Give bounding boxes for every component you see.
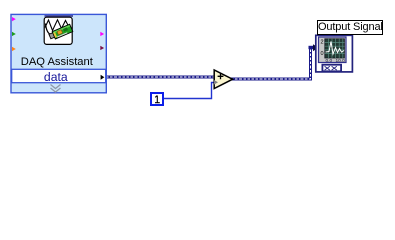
svg-text:10.0: 10.0 [336, 58, 346, 64]
svg-text:DAQ Assistant: DAQ Assistant [21, 56, 94, 68]
svg-text:0.0: 0.0 [326, 58, 333, 64]
svg-text:2: 2 [321, 40, 324, 46]
svg-text:0: 0 [321, 51, 324, 57]
svg-text:data: data [44, 70, 68, 84]
